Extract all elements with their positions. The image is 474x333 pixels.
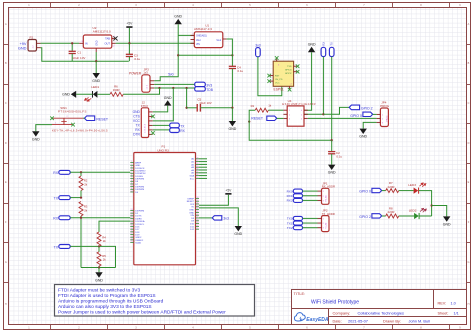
power flag +5V	[126, 22, 133, 44]
svg-text:H: H	[5, 303, 7, 306]
ground below U2	[92, 61, 100, 83]
svg-text:1x3: 1x3	[143, 71, 148, 75]
net port 3v3	[255, 43, 260, 56]
capacitor C2 0.1u	[328, 140, 342, 164]
wire R7 to LED3	[399, 190, 414, 192]
junction R2 top	[80, 171, 82, 173]
svg-text:VIN: VIN	[196, 44, 200, 46]
svg-text:44: 44	[197, 225, 199, 227]
junction JP3 pin3 riser R6	[158, 87, 160, 89]
svg-text:TDB: TDB	[206, 88, 213, 92]
wire P1 5V to +5V	[199, 195, 228, 206]
svg-text:IN: IN	[85, 41, 88, 45]
wire R2	[80, 172, 82, 176]
capacitor C5 10uF 10V	[187, 97, 233, 111]
svg-text:RESET: RESET	[187, 201, 195, 203]
svg-text:0.1u: 0.1u	[336, 155, 342, 159]
wire flag to R8	[382, 215, 386, 217]
svg-text:RX: RX	[53, 217, 58, 221]
svg-text:GND: GND	[229, 127, 237, 131]
svg-text:GND: GND	[308, 42, 316, 46]
junction TX rail	[331, 139, 333, 141]
svg-text:Sheet:: Sheet:	[438, 311, 449, 315]
svg-text:OUT: OUT	[105, 41, 111, 45]
svg-text:0.1u: 0.1u	[237, 69, 243, 73]
svg-text:RX_AD: RX_AD	[325, 195, 328, 202]
ground above FTDI	[164, 100, 171, 105]
svg-text:POWER: POWER	[129, 71, 142, 75]
svg-text:C: C	[5, 102, 7, 105]
title block	[292, 290, 467, 325]
diode LED3	[408, 181, 426, 194]
svg-text:RX: RX	[53, 171, 58, 175]
svg-text:330R: 330R	[113, 88, 120, 92]
svg-text:39: 39	[197, 211, 199, 213]
wire U2 OUT 5V rail	[116, 42, 195, 44]
svg-text:LED3: LED3	[408, 183, 416, 187]
svg-text:TX2: TX2	[287, 226, 293, 230]
junction 3v3 C5 rail	[231, 107, 233, 109]
diode LED1	[84, 85, 99, 103]
svg-text:220R: 220R	[388, 210, 395, 214]
svg-text:1/1: 1/1	[454, 311, 459, 315]
svg-text:36: 36	[197, 203, 199, 205]
junction C5 rail	[185, 107, 187, 109]
svg-text:GND: GND	[18, 46, 27, 51]
module U3 ESP01	[269, 58, 297, 91]
svg-text:10uF 10V: 10uF 10V	[199, 101, 212, 105]
svg-text:1 2 3 4 5 6: 1 2 3 4 5 6	[145, 124, 147, 133]
svg-text:40: 40	[197, 214, 199, 216]
wire FTDI RX to flag	[153, 129, 170, 131]
svg-text:ESD(USB)T14E4Z6R: ESD(USB)T14E4Z6R	[282, 102, 316, 106]
wire R3 bottom	[80, 216, 82, 268]
junction C5 riser	[185, 87, 187, 89]
ic U4 ESD protection	[282, 99, 316, 126]
net label GPIO 0 LED	[359, 188, 381, 193]
net port TX (D1)	[54, 196, 71, 201]
connector P2 +9V/GND input	[18, 35, 41, 51]
svg-text:FTDI Adapter must be switched: FTDI Adapter must be switched to 3V3	[58, 288, 140, 294]
notes text box	[55, 285, 255, 317]
resistor R8 220R	[386, 207, 399, 218]
wire TX riser down	[331, 57, 333, 141]
wires JP1 to flags	[303, 190, 318, 192]
svg-text:TX_ADDR: TX_ADDR	[322, 212, 335, 216]
svg-text:FTDI Adapter is used to Progra: FTDI Adapter is used to Program the ESP0…	[58, 293, 156, 299]
junction GND rail left	[177, 54, 179, 56]
svg-text:GND: GND	[174, 15, 182, 19]
wire P1 3V3 to flag	[199, 217, 214, 219]
wire to ground right of C5	[231, 108, 233, 121]
wire GND branch to U1 pin1	[178, 34, 194, 36]
net label 3v3 at P1	[212, 216, 229, 221]
svg-text:TX: TX	[54, 196, 59, 200]
resistor R4 2k	[97, 232, 106, 247]
wire 3v3 to ESP01	[258, 57, 282, 96]
wire down to R6	[123, 88, 159, 94]
svg-text:John M. Bull: John M. Bull	[409, 319, 431, 324]
svg-text:220R: 220R	[388, 185, 395, 189]
svg-text:R1: R1	[251, 104, 255, 108]
wire U2 GND down	[95, 52, 97, 61]
diode LED2 green	[409, 207, 427, 220]
svg-text:26: 26	[197, 157, 199, 159]
svg-text:PROG: PROG	[380, 104, 390, 108]
net label GPIO 2 LED	[359, 214, 381, 219]
svg-text:GND(ADJ): GND(ADJ)	[196, 35, 207, 38]
net port RX	[170, 128, 186, 133]
svg-text:RX: RX	[321, 42, 325, 46]
svg-text:TX_AD: TX_AD	[325, 222, 328, 229]
svg-text:CTS: CTS	[133, 115, 140, 119]
connector JP4 PROG	[377, 101, 390, 127]
net ports TX0 TX1 TX2	[287, 216, 303, 230]
ground below C2	[328, 165, 335, 170]
wire to GPIO 2 flag	[323, 107, 349, 114]
svg-text:Power Jumper is used to switch: Power Jumper is used to switch power bet…	[58, 310, 226, 316]
svg-text:D14/SDA: D14/SDA	[135, 220, 145, 223]
svg-text:+5V: +5V	[225, 188, 232, 192]
ground below LEDs	[443, 216, 450, 221]
svg-text:GND: GND	[95, 278, 103, 282]
svg-text:P2: P2	[30, 35, 34, 39]
net label GPIO 2	[349, 105, 372, 110]
junction R3 bottom	[80, 217, 82, 219]
svg-text:GPIO 0: GPIO 0	[359, 189, 371, 193]
resistor R2 2k	[79, 176, 88, 191]
svg-text:GND: GND	[95, 40, 98, 46]
svg-text:Arduino can also supply 3V3 to: Arduino can also supply 3V3 to the ESP01…	[58, 304, 152, 310]
svg-text:41: 41	[197, 217, 199, 219]
svg-text:RESET: RESET	[251, 117, 264, 121]
wire R8 to LED2	[399, 215, 414, 217]
svg-text:GND: GND	[133, 110, 141, 114]
svg-text:42: 42	[197, 219, 199, 221]
svg-text:GND: GND	[189, 210, 194, 212]
svg-text:IOREF: IOREF	[187, 198, 194, 200]
svg-text:Company:: Company:	[333, 310, 351, 315]
svg-text:VCC: VCC	[133, 119, 141, 123]
wire LED1 to ground	[76, 93, 92, 95]
wire GND to U4 pin	[304, 52, 312, 110]
svg-text:C: C	[468, 102, 470, 105]
net port TX	[170, 123, 186, 128]
net port TDB select	[195, 87, 214, 92]
regulator U2 AMS1117-5.0	[79, 26, 115, 52]
wire GPIO 0 to PROG pin1	[373, 113, 377, 115]
svg-text:3V3: 3V3	[206, 84, 212, 88]
junction divider gnd	[98, 266, 100, 268]
ground above U4	[308, 42, 316, 52]
svg-text:UNO R3: UNO R3	[157, 148, 169, 152]
net port RX riser	[321, 42, 326, 57]
junction RX riser	[322, 113, 324, 115]
svg-text:CH_PD: CH_PD	[275, 79, 283, 81]
wire PROG pin3 to ground	[363, 122, 376, 128]
svg-text:AREF: AREF	[135, 162, 141, 165]
svg-text:ESP01: ESP01	[274, 88, 284, 92]
ground below SW1	[32, 131, 39, 136]
svg-text:GPIO 0: GPIO 0	[350, 114, 362, 118]
svg-text:G: G	[468, 261, 470, 264]
junction LED gnd	[430, 204, 432, 206]
resistor R5 2k	[97, 252, 106, 266]
junction FTDI VCC riser	[172, 87, 174, 89]
wire U1 Vout down	[227, 39, 233, 55]
junction 3v3 gnd rail right	[231, 54, 233, 56]
no-connect SW1 pin bottom-right	[71, 123, 75, 127]
resistor R3 2k	[79, 202, 88, 217]
junction RESET vertical	[248, 120, 250, 122]
svg-text:U4: U4	[288, 99, 292, 103]
ic P1 UNO R3 shield header	[130, 144, 207, 264]
svg-text:2021-05-07: 2021-05-07	[348, 319, 368, 324]
wire U4 pin4 to PROG pin2	[308, 117, 377, 119]
regulator U1 AMS1117-3.3	[191, 23, 227, 47]
svg-text:3v3: 3v3	[223, 217, 229, 221]
junction R4/R5	[98, 245, 100, 247]
wire SW1 to ground	[36, 125, 52, 132]
svg-text:38: 38	[197, 208, 199, 210]
svg-text:REV:: REV:	[438, 301, 447, 305]
wire GND return rail	[41, 48, 129, 62]
junction U2 GND rail	[95, 60, 97, 62]
wire FTDI VCC riser	[153, 88, 174, 121]
svg-text:RX_ADDR: RX_ADDR	[322, 185, 335, 189]
resistor R1 1k	[251, 104, 272, 113]
wires JP2 to flags	[303, 217, 318, 219]
svg-text:+5V: +5V	[126, 22, 133, 26]
ground below divider	[95, 268, 103, 283]
wire 3v3 gnd rail	[178, 54, 232, 56]
ground right of P1	[235, 226, 242, 231]
connector JP1 RX_ADDR	[318, 181, 336, 204]
wire R1 to U4	[268, 109, 283, 111]
wire RESET to U4 pin3	[277, 117, 284, 119]
svg-text:G: G	[5, 261, 7, 264]
svg-text:AMS1117-3.3: AMS1117-3.3	[194, 27, 212, 31]
no-connect FTDI DTR	[151, 131, 155, 135]
wire +9V to U2 IN	[41, 42, 80, 44]
svg-text:3v3: 3v3	[255, 43, 260, 47]
svg-text:Vout: Vout	[216, 39, 221, 42]
svg-text:35: 35	[197, 200, 199, 202]
svg-text:25: 25	[131, 241, 133, 243]
svg-text:TX1: TX1	[287, 221, 293, 225]
ground below PROG	[360, 129, 367, 134]
wire R6 to LED1	[98, 93, 110, 95]
svg-text:GND: GND	[189, 212, 194, 214]
no-connect X on U2 TAB	[113, 36, 117, 40]
svg-text:0.1u: 0.1u	[134, 57, 140, 61]
ground right of C5	[229, 121, 236, 126]
net port TX riser	[329, 42, 334, 57]
junction C1 top	[71, 42, 73, 44]
net label RESET at SW1	[85, 116, 109, 122]
wire RX2 to P1	[70, 217, 130, 219]
svg-text:WiFi Shield Prototype: WiFi Shield Prototype	[311, 300, 359, 306]
no-connect FTDI CTS	[151, 115, 155, 119]
no-connect marks ESP01 pins	[267, 56, 299, 91]
wire RX riser to U4	[304, 57, 323, 115]
net ports RX0 RX1 RX2	[287, 189, 303, 203]
wire C5 riser	[186, 88, 188, 108]
svg-text:TXD: TXD	[287, 66, 292, 68]
net port 3V3 select	[195, 82, 213, 87]
wire junction to ground	[432, 206, 447, 217]
svg-text:RST: RST	[275, 76, 280, 78]
wire GND stem down to JP3 pin1	[154, 24, 178, 81]
svg-text:1.0: 1.0	[451, 301, 456, 305]
wire TX flag to divider	[70, 197, 81, 199]
svg-text:VCC: VCC	[275, 83, 280, 85]
wire R4 top to P1	[99, 221, 130, 232]
svg-text:32: 32	[197, 174, 199, 176]
net port RX2	[53, 216, 70, 221]
connector J2 FTDI	[133, 100, 153, 137]
EasyEDA logo	[294, 313, 328, 323]
svg-text:VIN: VIN	[190, 215, 194, 217]
svg-text:GND: GND	[62, 93, 70, 97]
capacitor C4 0.1u	[229, 55, 244, 108]
svg-text:29: 29	[197, 166, 199, 168]
svg-text:GPIO 2: GPIO 2	[361, 106, 373, 110]
junction 5V rail	[128, 42, 130, 44]
svg-text:D: D	[5, 142, 7, 145]
resistor R6 330R	[110, 84, 123, 96]
wire LED3 to junction	[419, 191, 432, 216]
wire JP3 pin2 to flag	[154, 83, 194, 85]
svg-text:H: H	[468, 303, 470, 306]
capacitor C3 0.1u	[126, 43, 141, 61]
svg-text:GND: GND	[164, 96, 172, 100]
svg-text:SDA1: SDA1	[135, 241, 141, 244]
svg-text:RX1: RX1	[287, 194, 293, 198]
svg-text:RX: RX	[135, 128, 140, 132]
svg-text:LED2: LED2	[409, 208, 417, 212]
resistor R7 220R	[386, 181, 399, 192]
svg-text:TAB: TAB	[105, 37, 110, 41]
ground left of LED1	[71, 91, 76, 98]
svg-text:12: 12	[131, 191, 133, 193]
svg-text:Date:: Date:	[333, 319, 342, 324]
svg-text:PTS645SH50LFS: PTS645SH50LFS	[58, 110, 87, 114]
svg-text:RX2: RX2	[287, 199, 293, 203]
svg-text:Collaborative Technologies: Collaborative Technologies	[358, 310, 404, 315]
svg-text:SDA: SDA	[190, 175, 195, 178]
svg-text:KEY-TH_4P+L6.3+W6.0+P4.50+LS6.: KEY-TH_4P+L6.3+W6.0+P4.50+LS6.5	[52, 129, 108, 133]
svg-text:45: 45	[197, 228, 199, 230]
net port TX2	[54, 245, 71, 250]
svg-text:43: 43	[197, 222, 199, 224]
svg-text:D: D	[468, 142, 470, 145]
svg-text:FTDI: FTDI	[141, 104, 148, 108]
wire flag to R7	[382, 190, 386, 192]
junction R2/R3	[80, 196, 82, 198]
net label GPIO 0	[350, 112, 372, 118]
no-connect SW1 pin top-left	[50, 116, 54, 120]
wire FTDI TX to flag	[153, 124, 170, 126]
svg-text:GPIO 2: GPIO 2	[359, 215, 371, 219]
wire JP3 pin3 to flag	[154, 87, 194, 89]
ground above U1	[174, 15, 182, 25]
wire P1 GND right	[199, 208, 238, 226]
wire RX to P1	[70, 171, 130, 173]
wire R4 bottom	[98, 246, 100, 251]
capacitor C1 10uF 10V	[69, 43, 86, 61]
svg-text:GND: GND	[328, 171, 336, 175]
svg-text:27: 27	[197, 160, 199, 162]
svg-text:Arduino is programmed through: Arduino is programmed through its USB On…	[58, 299, 164, 305]
power flag +5V at P1	[225, 193, 231, 195]
wire divider gnd rail	[98, 266, 100, 267]
svg-text:GND: GND	[234, 232, 242, 236]
svg-text:GPIO0: GPIO0	[285, 69, 292, 71]
wire LED2 to junction	[419, 215, 432, 217]
wire R1 left down to rail	[249, 110, 332, 140]
svg-text:EasyEDA: EasyEDA	[306, 317, 329, 323]
switch SW1 PTS645SH50LFS	[52, 106, 108, 133]
svg-text:TX0: TX0	[287, 217, 293, 221]
svg-text:RESET: RESET	[96, 117, 109, 121]
svg-text:37: 37	[197, 205, 199, 207]
svg-text:Vout: Vout	[196, 39, 201, 42]
svg-text:PROG: PROG	[386, 115, 388, 121]
svg-text:Drawn By:: Drawn By:	[383, 319, 401, 324]
svg-text:TX: TX	[330, 42, 334, 46]
svg-text:34: 34	[197, 197, 199, 199]
wire TX2 through divider	[70, 246, 115, 267]
net port RX (D0)	[53, 170, 70, 175]
svg-text:AMS1117-5.0: AMS1117-5.0	[93, 30, 111, 34]
svg-text:RX: RX	[180, 129, 185, 133]
wire SW1 to RESET flag	[83, 117, 85, 119]
svg-text:GND: GND	[443, 223, 451, 227]
svg-text:GPIO2: GPIO2	[285, 73, 292, 75]
svg-text:LED1: LED1	[91, 85, 99, 89]
svg-text:GND: GND	[92, 79, 100, 83]
svg-text:RX0: RX0	[287, 189, 293, 193]
svg-text:33: 33	[197, 177, 199, 179]
svg-text:31: 31	[197, 171, 199, 173]
connector JP3 POWER	[129, 67, 154, 92]
wire FTDI GND up	[153, 106, 168, 112]
svg-text:GND: GND	[32, 137, 40, 141]
svg-text:5v0: 5v0	[168, 73, 173, 77]
svg-text:TX: TX	[54, 245, 59, 249]
connector JP2 TX_ADDR	[318, 209, 335, 232]
svg-text:DTR: DTR	[133, 133, 140, 137]
svg-text:30: 30	[197, 169, 199, 171]
svg-text:10uF 10V: 10uF 10V	[72, 56, 85, 60]
svg-text:GND: GND	[359, 135, 367, 139]
svg-text:C1: C1	[77, 50, 81, 54]
svg-text:28: 28	[197, 163, 199, 165]
net label RESET to U4	[251, 116, 276, 121]
svg-text:TITLE:: TITLE:	[294, 291, 306, 296]
